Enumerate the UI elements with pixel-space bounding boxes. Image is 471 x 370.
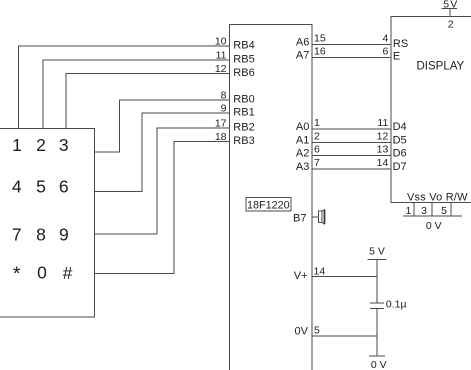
wire row3 keypad to RB2 bbox=[94, 128, 230, 234]
svg-text:A2: A2 bbox=[296, 148, 309, 160]
wire A6 to RS bbox=[312, 43, 391, 45]
svg-text:5 V: 5 V bbox=[369, 245, 385, 257]
svg-text:RS: RS bbox=[393, 38, 408, 50]
wire V+ pin14 to 5V bbox=[312, 275, 377, 277]
IC U1 18F1220 (box, clipped at bottom) bbox=[229, 25, 312, 370]
wire column3 keypad to RB6 bbox=[66, 74, 229, 130]
svg-text:D7: D7 bbox=[393, 161, 407, 173]
svg-text:14: 14 bbox=[314, 266, 326, 278]
wire capacitor to ground bbox=[376, 309, 378, 357]
svg-text:15: 15 bbox=[314, 32, 326, 44]
display pin 1 stub bbox=[413, 203, 415, 216]
label 18F1220 (boxed part number) bbox=[246, 198, 291, 212]
display pin 3 stub bbox=[431, 203, 433, 216]
wire A0 to D4 bbox=[312, 128, 391, 130]
svg-text:D5: D5 bbox=[393, 134, 407, 146]
svg-text:18F1220: 18F1220 bbox=[247, 199, 290, 211]
svg-text:0 V: 0 V bbox=[426, 220, 442, 232]
svg-text:DISPLAY: DISPLAY bbox=[417, 61, 465, 73]
svg-text:2: 2 bbox=[36, 135, 46, 155]
svg-text:1: 1 bbox=[314, 117, 320, 129]
wire row4 keypad to RB3 bbox=[94, 142, 230, 274]
wire 5V bar to capacitor bbox=[376, 259, 378, 303]
svg-text:A1: A1 bbox=[296, 134, 309, 146]
wire row1 keypad to RB0 bbox=[94, 100, 230, 152]
wire A7 to E bbox=[312, 56, 391, 58]
svg-text:0V: 0V bbox=[295, 326, 309, 338]
wire A1 to D5 bbox=[312, 141, 391, 143]
svg-text:11: 11 bbox=[216, 50, 227, 62]
svg-text:5V: 5V bbox=[443, 0, 458, 11]
svg-text:7: 7 bbox=[12, 225, 22, 245]
wire B7 to sounder bbox=[312, 216, 318, 218]
piezo sounder LS1 on B7 bbox=[319, 210, 325, 224]
svg-text:0.1µ: 0.1µ bbox=[386, 299, 407, 311]
svg-text:12: 12 bbox=[215, 63, 227, 75]
svg-text:0 V: 0 V bbox=[371, 359, 387, 370]
svg-text:3: 3 bbox=[59, 135, 69, 155]
svg-text:A0: A0 bbox=[296, 121, 309, 133]
svg-text:6: 6 bbox=[382, 45, 388, 57]
svg-text:18: 18 bbox=[215, 131, 227, 143]
svg-text:5: 5 bbox=[36, 177, 46, 197]
svg-text:A7: A7 bbox=[296, 49, 309, 61]
display pin 5 stub bbox=[450, 203, 452, 216]
svg-text:D6: D6 bbox=[393, 148, 407, 160]
5V supply symbol (decoupling branch) bbox=[367, 245, 386, 259]
keypad SW1 (3x4 matrix keypad box, clipped at left edge) bbox=[0, 129, 94, 318]
svg-text:1: 1 bbox=[405, 205, 411, 217]
svg-text:5: 5 bbox=[314, 325, 320, 337]
svg-text:9: 9 bbox=[221, 103, 227, 115]
svg-text:RB0: RB0 bbox=[233, 94, 254, 106]
svg-text:8: 8 bbox=[221, 90, 227, 102]
svg-text:V+: V+ bbox=[294, 270, 308, 282]
svg-text:6: 6 bbox=[59, 177, 69, 197]
display module (box, clipped at right edge) bbox=[391, 17, 471, 203]
svg-text:3: 3 bbox=[421, 205, 427, 217]
svg-text:B7: B7 bbox=[293, 213, 306, 225]
svg-text:D4: D4 bbox=[393, 121, 407, 133]
svg-text:6: 6 bbox=[314, 144, 320, 156]
svg-text:17: 17 bbox=[215, 118, 227, 130]
svg-text:11: 11 bbox=[377, 117, 388, 129]
svg-text:0: 0 bbox=[37, 263, 47, 283]
svg-text:14: 14 bbox=[377, 157, 389, 169]
svg-text:*: * bbox=[13, 263, 21, 285]
svg-text:RB6: RB6 bbox=[233, 67, 254, 79]
svg-text:4: 4 bbox=[382, 32, 388, 44]
svg-text:9: 9 bbox=[59, 225, 69, 245]
wire column2 keypad to RB5 bbox=[43, 60, 230, 129]
wire row2 keypad to RB1 bbox=[94, 113, 230, 192]
svg-text:RB2: RB2 bbox=[233, 122, 254, 134]
svg-text:2: 2 bbox=[448, 19, 454, 31]
svg-text:13: 13 bbox=[377, 144, 389, 156]
svg-text:E: E bbox=[393, 51, 400, 63]
svg-text:8: 8 bbox=[36, 225, 46, 245]
ground 0V symbol (decoupling branch) bbox=[369, 356, 386, 370]
svg-text:16: 16 bbox=[314, 45, 326, 57]
0V rail under display bbox=[403, 216, 462, 232]
wire A2 to D6 bbox=[312, 155, 391, 157]
svg-text:4: 4 bbox=[12, 177, 22, 197]
svg-text:RB5: RB5 bbox=[233, 54, 254, 66]
svg-text:Vss Vo R/W: Vss Vo R/W bbox=[407, 192, 468, 204]
svg-text:1: 1 bbox=[12, 135, 22, 155]
wire column1 keypad to RB4 bbox=[19, 46, 230, 129]
svg-text:7: 7 bbox=[314, 157, 320, 169]
svg-text:5: 5 bbox=[441, 205, 447, 217]
svg-text:2: 2 bbox=[314, 130, 320, 142]
svg-text:10: 10 bbox=[215, 36, 227, 48]
wire A3 to D7 bbox=[312, 168, 391, 170]
svg-text:RB1: RB1 bbox=[233, 107, 254, 119]
svg-text:12: 12 bbox=[377, 130, 389, 142]
svg-text:#: # bbox=[63, 263, 73, 283]
svg-text:RB3: RB3 bbox=[233, 135, 254, 147]
wire 0V pin5 to ground bbox=[312, 335, 377, 337]
svg-text:A3: A3 bbox=[296, 161, 309, 173]
5V supply symbol at display pin 2 bbox=[442, 0, 459, 17]
capacitor C1 0.1u bbox=[370, 299, 407, 311]
svg-text:A6: A6 bbox=[296, 36, 309, 48]
svg-text:RB4: RB4 bbox=[233, 40, 254, 52]
